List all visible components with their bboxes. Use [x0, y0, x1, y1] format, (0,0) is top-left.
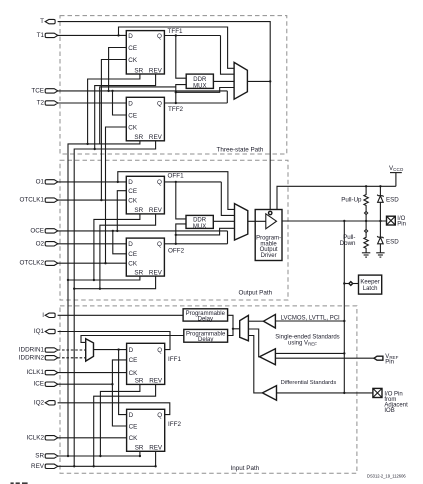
svg-text:SR: SR [134, 269, 143, 276]
svg-text:Input Path: Input Path [231, 465, 260, 472]
three-state path dashed box [60, 16, 287, 154]
wire IDDR mux out branch to IFF2.D [119, 350, 127, 415]
wire buffer3 output to mux in3 [248, 336, 262, 393]
svg-text:CK: CK [129, 370, 139, 377]
svg-text:SR: SR [135, 445, 144, 452]
svg-text:CE: CE [128, 45, 137, 52]
wire OFF1.Q to output mux in2 [221, 182, 234, 216]
ground symbol (ESD) [376, 252, 384, 254]
flip-flop IFF2 [127, 409, 165, 451]
wire IFF1.SR [100, 384, 139, 456]
VCCO rail [277, 186, 396, 209]
wire OFF1.REV [100, 214, 156, 289]
wire mux output to T rail [247, 80, 270, 82]
output path mux [235, 204, 248, 240]
svg-text:SR: SR [134, 67, 143, 74]
svg-text:CE: CE [129, 357, 138, 364]
wire DDR MUX out to mux in3 [213, 80, 234, 82]
wire O1 bypass to output mux in1 [118, 172, 235, 210]
svg-text:Delay: Delay [198, 337, 213, 343]
wire T1 bypass to mux in1 [119, 27, 235, 68]
svg-text:IQ2: IQ2 [34, 399, 45, 406]
wire input mux out [233, 328, 240, 330]
three-state output mux [234, 62, 247, 99]
svg-text:ICE: ICE [34, 381, 45, 388]
flip-flop IFF1 [127, 343, 165, 384]
wire T1 to TFF1.D [58, 34, 127, 36]
driver three-state bubble [269, 211, 272, 214]
svg-text:Q: Q [157, 33, 162, 40]
svg-text:DS312-2_19_112606: DS312-2_19_112606 [367, 473, 406, 478]
svg-text:MUX: MUX [193, 83, 206, 89]
wire TFF1.REV [95, 74, 156, 149]
wire IQ2 from IFF2.Q [58, 403, 170, 415]
wire TCE to TFF2.CE [113, 91, 127, 115]
wire SR [58, 455, 140, 457]
wire OTCLK2 riser to TFF2.CK [106, 127, 127, 263]
wire DDR MUX out to mux in3 [213, 220, 234, 222]
wire OTCLK2 [58, 262, 127, 264]
wire bundle branch P [100, 87, 176, 144]
svg-text:TFF1: TFF1 [168, 28, 184, 35]
svg-text:Delay: Delay [198, 316, 213, 322]
VREF pin symbol [374, 356, 383, 360]
svg-text:CK: CK [128, 57, 138, 64]
wire SR collector (three-state) [68, 141, 140, 456]
wire OTCLK1 riser to TFF1.CK [101, 60, 126, 201]
svg-text:OFF2: OFF2 [168, 248, 185, 255]
wire ICE to IFF1.CE [112, 360, 126, 426]
wire OTCLK1 [58, 199, 127, 201]
wire TFF2.Q [164, 102, 227, 104]
svg-text:D: D [128, 33, 133, 40]
wire TFF1.SR [88, 74, 140, 144]
svg-text:OTCLK2: OTCLK2 [20, 260, 45, 267]
svg-text:REV: REV [31, 463, 45, 470]
wire IDDRIN1 (dashed) [58, 349, 86, 351]
wire buffer2 output to mux in2 [248, 329, 259, 357]
wire O2 to OFF2.D [58, 243, 127, 245]
wire T [58, 22, 271, 212]
buffer differential standards [262, 386, 276, 401]
wire REV collector (output path) [74, 276, 155, 289]
svg-text:MUX: MUX [193, 224, 206, 230]
DDR MUX (three-state) [186, 74, 213, 88]
svg-text:Latch: Latch [363, 286, 378, 292]
I/O pin symbol [387, 216, 396, 225]
wire output mux to driver [248, 220, 266, 222]
wire IFF1.REV [94, 384, 156, 466]
svg-text:DDR: DDR [193, 77, 207, 83]
DDR MUX (output path) [186, 215, 213, 228]
svg-text:Down: Down [340, 240, 356, 247]
wire ICE [58, 383, 113, 385]
wire SR collector (output path) [68, 276, 140, 280]
wire ICLK1 to IFF1.CK [58, 372, 127, 374]
svg-text:using VREF: using VREF [288, 340, 317, 346]
svg-text:TFF2: TFF2 [168, 106, 184, 113]
svg-text:CE: CE [128, 251, 137, 258]
svg-text:ICLK2: ICLK2 [26, 434, 44, 441]
svg-text:Q: Q [157, 241, 162, 248]
svg-text:I: I [42, 312, 44, 319]
svg-text:IFF1: IFF1 [168, 356, 181, 363]
buffer LVCMOS/LVTTL/PCI [264, 314, 276, 328]
wire TFF1.Q to DDR MUX in1 [176, 36, 186, 79]
svg-text:TCE: TCE [31, 87, 44, 94]
svg-text:IOB: IOB [384, 408, 394, 414]
wire OFF1.SR [94, 214, 140, 280]
svg-text:O2: O2 [36, 240, 45, 247]
I/O pin from adjacent IOB symbol [373, 388, 382, 397]
svg-text:IQ1: IQ1 [34, 328, 45, 335]
svg-text:CK: CK [129, 435, 139, 442]
svg-text:Q: Q [157, 347, 162, 354]
svg-text:CK: CK [128, 124, 138, 131]
svg-text:ESD: ESD [386, 239, 399, 246]
svg-text:ESD: ESD [386, 197, 399, 204]
flip-flop TFF1 [126, 31, 164, 74]
svg-text:D: D [129, 347, 134, 354]
svg-text:IDDRIN2: IDDRIN2 [19, 354, 45, 361]
wire ICLK2 to IFF2.CK [58, 437, 127, 439]
svg-text:Output Path: Output Path [239, 289, 273, 296]
svg-text:SR: SR [135, 378, 144, 385]
flip-flop TFF2 [126, 97, 164, 141]
svg-text:SR: SR [35, 453, 44, 460]
svg-text:Q: Q [157, 412, 162, 419]
wire TCE end drop to TFF2.Q rail [226, 91, 228, 103]
svg-text:D: D [129, 412, 134, 419]
programmable output driver box [255, 210, 282, 261]
wire IFF2.SR stub [139, 451, 141, 456]
svg-text:D: D [128, 179, 133, 186]
svg-text:Q: Q [157, 100, 162, 107]
wire buffer1 output to mux in1 [248, 320, 263, 322]
svg-text:T2: T2 [37, 100, 45, 107]
wire IDDR mux out to IFF1.D [94, 349, 127, 351]
wire OCE to OFF1.CE [117, 191, 126, 231]
flip-flop OFF2 [126, 238, 164, 276]
svg-text:T1: T1 [37, 32, 45, 39]
wire O1 to OFF1.D [58, 181, 127, 183]
wire TFF1.Q to mux in2 [221, 36, 235, 75]
wire OFF2.Q to output mux in4 [176, 228, 235, 235]
svg-text:CK: CK [128, 261, 138, 268]
wire T2 to TFF2.D [58, 102, 127, 104]
wire TFF2.Q to DDR MUX in2 [176, 85, 186, 103]
wire TFF2.Q to mux in4 [176, 88, 234, 93]
wire delay inputs tie [228, 315, 233, 335]
svg-text:Driver: Driver [261, 253, 277, 259]
wire buffer2 pad input [275, 352, 344, 354]
wire TCE [58, 90, 228, 92]
input mux (standards select) [240, 315, 249, 340]
svg-text:DDR: DDR [193, 218, 207, 224]
wire OCE to OFF2.CE [113, 231, 127, 254]
output path dashed box [60, 160, 288, 300]
wire IQ1 from IFF1.Q [58, 332, 170, 350]
wire IDDRIN2 (dashed) [58, 357, 86, 359]
buffer VREF standards [260, 349, 276, 365]
svg-text:Pin: Pin [397, 222, 406, 228]
svg-text:CE: CE [128, 188, 137, 195]
svg-text:REV: REV [149, 445, 163, 452]
svg-text:OFF1: OFF1 [168, 172, 185, 179]
svg-text:REV: REV [149, 269, 163, 276]
svg-text:T: T [40, 18, 44, 25]
wire REV [58, 465, 156, 467]
svg-text:CK: CK [128, 197, 138, 204]
wire buffer2 vref input [275, 357, 374, 359]
wire buffer3 input from adjacent pad [277, 392, 373, 394]
wire to keeper latch [344, 283, 358, 285]
svg-text:OCE: OCE [30, 227, 44, 234]
svg-text:REV: REV [149, 67, 163, 74]
wire delay2 output to IDDR mux [81, 336, 184, 343]
wire IFF2.REV stub [155, 451, 157, 466]
svg-text:O1: O1 [36, 178, 45, 185]
page artifact bottom-left [11, 482, 14, 484]
svg-text:Q: Q [157, 179, 162, 186]
wire TFF1.Q [164, 35, 220, 37]
wire OFF2.Q [164, 243, 227, 245]
wire OCE end drop to OFF2.Q rail [227, 231, 229, 244]
svg-text:Three-state Path: Three-state Path [217, 147, 264, 154]
I/O pad wire [282, 220, 387, 222]
svg-text:Differential Standards: Differential Standards [281, 380, 337, 386]
svg-text:ICLK1: ICLK1 [26, 369, 44, 376]
wire OCE [58, 230, 228, 232]
svg-text:REV: REV [149, 378, 163, 385]
svg-text:SR: SR [134, 207, 143, 214]
keeper latch box [359, 275, 382, 294]
IDDR input mux [86, 339, 94, 361]
wire OFF1.Q to DDR MUX in1 [176, 182, 186, 219]
svg-text:REV: REV [149, 134, 163, 141]
programmable delay 2 [184, 329, 228, 342]
wire I (delay1 output) [58, 314, 184, 316]
svg-text:LVCMOS, LVTTL, PCI: LVCMOS, LVTTL, PCI [281, 315, 340, 321]
svg-text:OTCLK1: OTCLK1 [20, 197, 45, 204]
svg-text:SR: SR [134, 134, 143, 141]
wire TCE to TFF1.CE [109, 48, 127, 91]
svg-text:D: D [128, 100, 133, 107]
svg-text:CE: CE [128, 112, 137, 119]
wire buffer1 input [275, 320, 344, 322]
svg-text:Pin: Pin [385, 360, 394, 366]
pad feedback vertical to input path [343, 221, 345, 393]
driver buffer triangle [266, 214, 277, 229]
wire OFF2.Q to DDR MUX in2 [176, 224, 186, 244]
svg-text:D: D [128, 241, 133, 248]
wire REV collector (three-state) [74, 141, 155, 467]
input path dashed box [60, 306, 357, 473]
svg-text:IFF2: IFF2 [168, 421, 181, 428]
svg-text:Pull-Up: Pull-Up [341, 197, 362, 204]
svg-text:IDDRIN1: IDDRIN1 [19, 347, 45, 354]
ground symbol (pull-down) [362, 252, 370, 254]
svg-text:CE: CE [129, 423, 138, 430]
programmable delay 1 [183, 309, 228, 321]
svg-text:REV: REV [149, 207, 163, 214]
VCCO power symbol [390, 172, 402, 174]
wire OFF1.Q [164, 181, 221, 183]
svg-text:Keeper: Keeper [360, 279, 379, 285]
flip-flop OFF1 [126, 176, 164, 214]
